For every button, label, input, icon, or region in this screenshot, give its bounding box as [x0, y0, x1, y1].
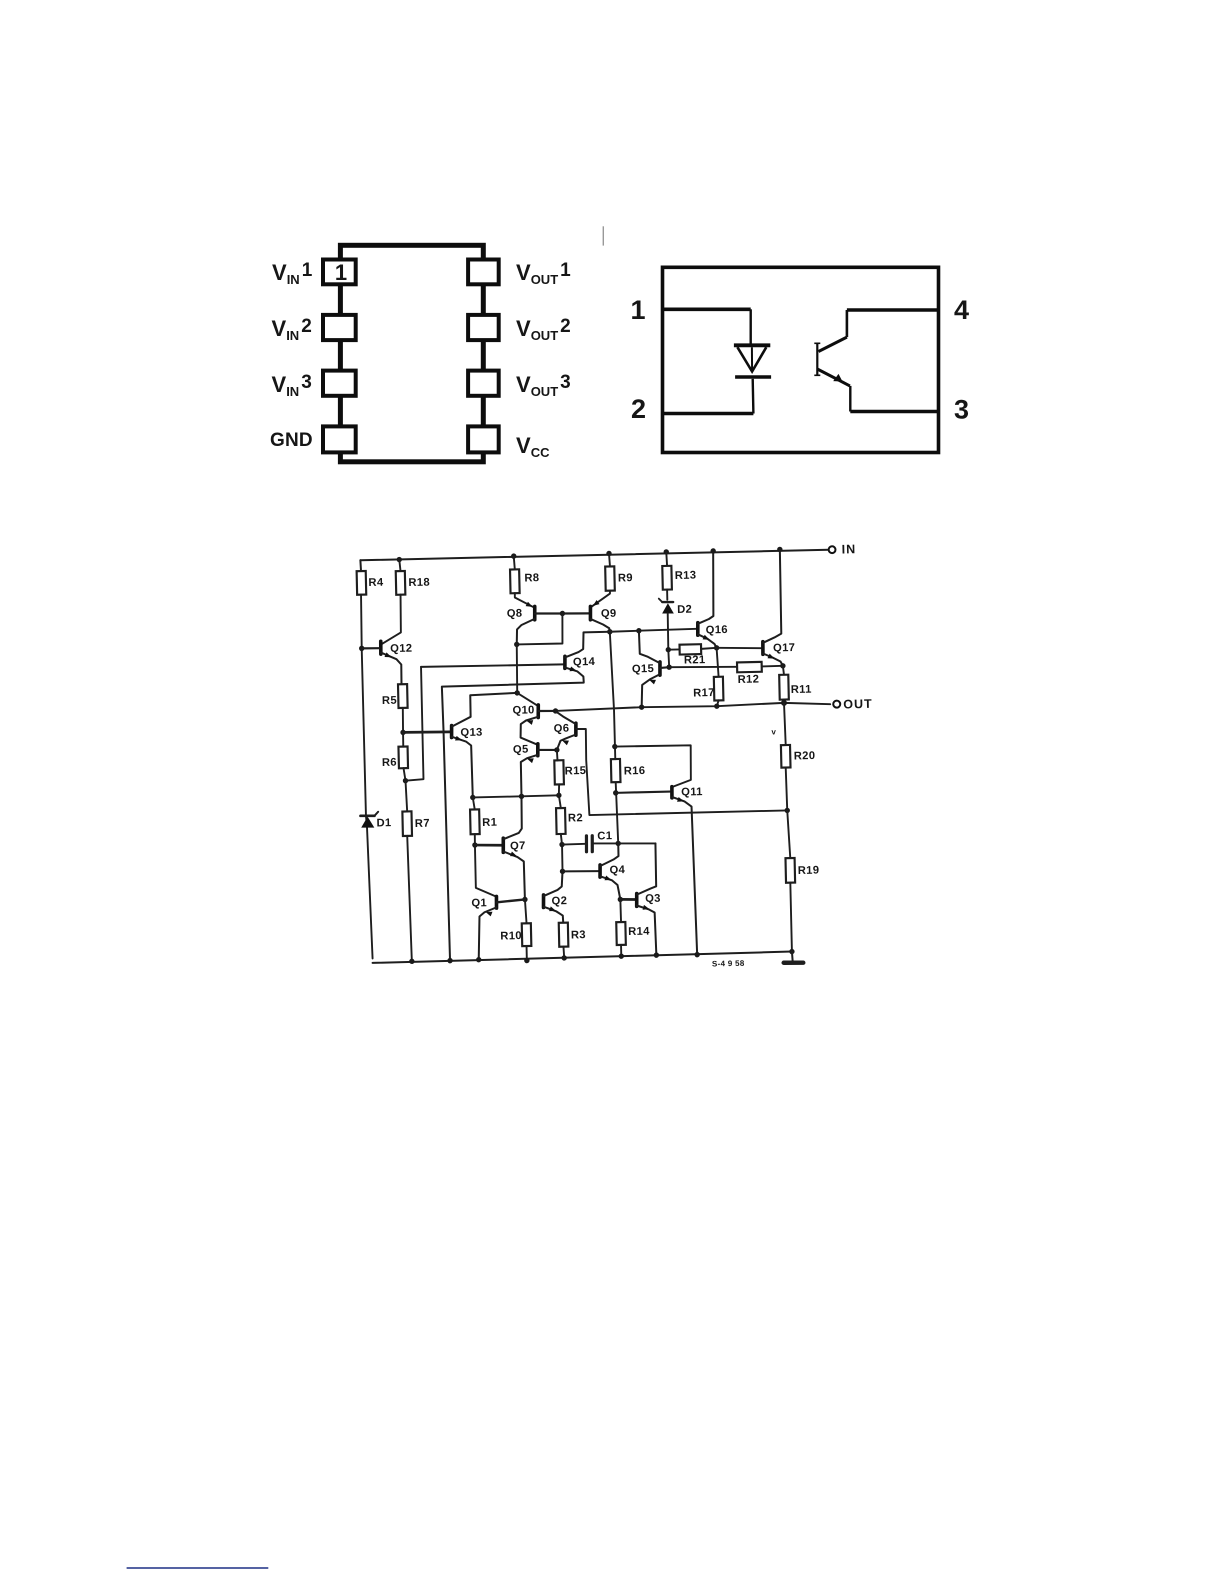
wire R10 bottom	[526, 946, 528, 961]
transistor Q9	[590, 600, 617, 633]
resistor R5	[382, 684, 408, 708]
optocoupler diagram	[630, 267, 969, 452]
junction Q10 base OUT	[553, 708, 559, 714]
resistor R16	[611, 758, 646, 782]
pin 4 GND	[323, 426, 356, 452]
resistor R18	[396, 570, 430, 594]
svg-text:VOUT3: VOUT3	[516, 372, 571, 399]
wire R13 top	[665, 552, 668, 566]
junction Q16 emitter	[714, 645, 720, 651]
svg-text:C1: C1	[597, 830, 612, 842]
wire base to Q9	[562, 613, 590, 614]
wire to R2 bottom	[561, 845, 564, 872]
wire to Q3 collector corner	[618, 843, 655, 845]
wire to R15 top	[556, 750, 559, 761]
resistor R14	[616, 921, 650, 945]
junction D2-R21	[666, 647, 672, 653]
transistor Q8	[507, 601, 564, 645]
capacitor C1	[586, 830, 613, 852]
junction R1-Q7 base	[472, 842, 478, 848]
wire R18 to Q12 collector	[380, 595, 401, 645]
svg-text:R8: R8	[524, 572, 539, 584]
svg-text:VCC: VCC	[516, 433, 550, 460]
wire R3 bottom	[562, 947, 565, 958]
svg-text:Q16: Q16	[706, 624, 728, 636]
wire R4 top	[359, 560, 362, 571]
wire R20 bottom	[786, 767, 788, 810]
svg-text:R13: R13	[675, 570, 697, 582]
svg-text:VIN3: VIN3	[272, 372, 312, 399]
junction R15-R2	[556, 793, 562, 799]
transistor Q2	[543, 871, 568, 923]
svg-text:R16: R16	[624, 765, 646, 777]
wire C1 left	[562, 843, 586, 846]
svg-text:Q10: Q10	[512, 704, 534, 716]
wire Q3 base	[620, 898, 635, 901]
wire R13 to D2	[666, 589, 668, 599]
junction Q15 emitter OUT	[639, 704, 645, 710]
svg-text:Q6: Q6	[554, 723, 570, 735]
pin 5 VCC	[468, 426, 499, 452]
wire R21 right	[701, 648, 716, 649]
svg-text:1: 1	[630, 295, 645, 325]
svg-text:Q2: Q2	[551, 895, 567, 907]
transistor Q15	[631, 630, 670, 707]
wire R10 top	[525, 899, 527, 923]
svg-text:Q5: Q5	[513, 744, 529, 756]
junction rail-Q17	[777, 547, 783, 553]
junction Q11 emitter ground	[694, 952, 700, 958]
wire R8 to Q8	[515, 593, 534, 608]
svg-text:R10: R10	[500, 930, 522, 942]
svg-text:Q14: Q14	[573, 656, 596, 668]
resistor R12	[737, 662, 762, 686]
svg-text:VOUT1: VOUT1	[516, 260, 571, 287]
wire R15 bottom	[558, 784, 561, 795]
svg-text:OUT: OUT	[843, 697, 873, 712]
svg-text:R15: R15	[565, 765, 587, 777]
transistor Q4	[599, 843, 626, 900]
junction R11 OUT	[781, 700, 787, 706]
footnote rule	[127, 1567, 269, 1569]
wire R7 top	[406, 781, 408, 812]
wire R17 bottom	[717, 700, 719, 706]
wire R8 top	[514, 556, 515, 569]
junction Q13 collector node	[514, 690, 520, 696]
wire R16 bottom riser	[616, 782, 619, 843]
junction Q13 emitter R1	[470, 795, 476, 801]
svg-text:Q15: Q15	[632, 663, 654, 675]
svg-text:R5: R5	[382, 695, 397, 707]
wire R1 top	[473, 797, 475, 809]
junction C1-R16 branch	[615, 841, 621, 847]
resistor R20	[781, 744, 816, 767]
wire to Q1 collector	[475, 845, 496, 897]
junction R20-R19 feedback tap	[784, 808, 790, 814]
junction Q4 base node	[560, 869, 566, 875]
junction R16-Q11 base	[613, 790, 619, 796]
pin 8 VOUT1	[468, 260, 499, 285]
wire R9 to Q9	[591, 591, 611, 607]
resistor R9	[605, 566, 633, 591]
transistor Q12	[381, 641, 414, 685]
junction rail-R8	[511, 553, 517, 559]
wire R6 top	[402, 732, 404, 746]
junction Q12 base	[359, 646, 365, 652]
svg-text:4: 4	[954, 295, 969, 325]
wire R19 top	[787, 810, 790, 858]
junction Q15 collector line	[636, 628, 642, 634]
resistor R8	[510, 569, 540, 593]
wire feedback to Q14 base corner	[403, 667, 423, 781]
svg-text:Q17: Q17	[773, 642, 795, 654]
junction Q15 base	[666, 664, 672, 670]
junction R10 ground	[524, 958, 530, 964]
junction rail-Q16	[710, 548, 716, 554]
wire R12 right	[762, 665, 783, 668]
junction Q9 emitter node	[607, 629, 613, 635]
wire Q11 base	[616, 792, 670, 793]
pin 3 lead	[850, 410, 938, 413]
svg-text:D2: D2	[677, 604, 692, 616]
LED (emitter diode)	[734, 309, 771, 413]
wire R21 left	[668, 648, 679, 650]
svg-text:IN: IN	[842, 542, 857, 556]
junction rail-R9	[606, 551, 612, 557]
wire ground rail	[373, 952, 792, 963]
svg-text:1: 1	[335, 260, 347, 285]
svg-text:3: 3	[954, 395, 969, 425]
diode D1 (zener)	[360, 811, 391, 829]
pin 6 VOUT3	[468, 371, 499, 396]
junction R3 ground	[561, 955, 567, 961]
svg-text:Q3: Q3	[645, 893, 661, 905]
svg-text:VIN2: VIN2	[272, 316, 312, 343]
junction Q11 collector wire	[612, 744, 618, 750]
transistor Q17	[761, 549, 796, 666]
wire Q16 base line	[610, 629, 697, 632]
svg-text:Q11: Q11	[681, 786, 703, 798]
svg-text:R7: R7	[415, 818, 430, 830]
resistor R4	[357, 571, 385, 595]
wire R18 top	[399, 560, 400, 572]
svg-text:2: 2	[631, 394, 646, 424]
pin 2 lead	[663, 412, 754, 416]
svg-text:Q8: Q8	[507, 608, 523, 620]
svg-text:Q12: Q12	[390, 643, 412, 655]
svg-text:R11: R11	[791, 684, 812, 696]
resistor R19	[785, 857, 819, 882]
wire D2 anode down	[668, 613, 670, 667]
svg-text:VOUT2: VOUT2	[516, 316, 571, 343]
junction Q3 emitter ground	[654, 952, 660, 958]
wire R11 top	[783, 666, 784, 675]
pin 1 VIN1	[323, 260, 356, 285]
node OUT terminal	[833, 697, 873, 712]
pin 1 lead	[663, 307, 751, 311]
transistor Q3	[635, 843, 662, 955]
svg-text:Q1: Q1	[471, 897, 487, 909]
wire IN rail	[360, 550, 828, 561]
wire R1 bottom	[474, 834, 476, 845]
wire OUT line	[555, 702, 830, 711]
junction Q17 emitter	[780, 663, 786, 669]
junction Q1-Q2 base	[522, 897, 528, 903]
wire left rail lower	[366, 816, 373, 959]
resistor R7	[402, 811, 430, 836]
wire Q12 base	[362, 647, 379, 650]
wire R11 bottom	[783, 699, 785, 702]
pin 4 lead	[847, 308, 939, 311]
svg-text:R17: R17	[693, 687, 715, 699]
wire Q11 collector loop	[615, 745, 692, 788]
junction Q5 base	[554, 747, 560, 753]
junction R6-R7	[403, 778, 409, 784]
svg-text:R9: R9	[618, 572, 633, 584]
wire R19 bottom	[790, 883, 792, 952]
resistor R1	[470, 809, 497, 834]
junction R7-ground rail	[409, 959, 415, 965]
resistor R21	[680, 644, 706, 667]
svg-text:R18: R18	[408, 577, 430, 589]
junction R17 OUT	[714, 703, 720, 709]
pin 7 VOUT2	[468, 315, 499, 340]
svg-text:D1: D1	[376, 817, 391, 829]
junction rail-R18	[397, 557, 403, 563]
wire base loop down	[516, 613, 563, 644]
transistor Q11	[672, 786, 707, 955]
resistor R13	[662, 565, 696, 589]
wire R6 bottom	[404, 768, 406, 781]
wire R7 to ground	[407, 836, 412, 962]
transistor Q7	[502, 796, 527, 900]
wire Q15 base to R12	[669, 666, 737, 669]
wire R2 bottom	[561, 834, 562, 845]
transistor Q16	[696, 551, 728, 649]
svg-text:Q4: Q4	[609, 864, 625, 876]
wire Q4 base	[563, 871, 599, 872]
junction Q1 emitter ground	[476, 957, 482, 963]
junction R14 ground	[619, 953, 625, 959]
wire left rail upper	[361, 595, 366, 816]
pin 3 VIN3	[323, 371, 356, 396]
transistor Q13	[451, 693, 520, 798]
wire R16 top riser	[610, 632, 615, 760]
resistor R2	[556, 808, 583, 834]
junction Q8 emitter	[514, 642, 520, 648]
wire Q17 base	[717, 647, 761, 649]
wire to Q10 collector	[517, 692, 537, 705]
chip body	[340, 245, 483, 461]
wire tail node horizontal	[473, 795, 559, 797]
transistor Q14	[441, 632, 617, 961]
svg-text:R4: R4	[368, 577, 384, 589]
junction Q14 emitter ground	[447, 958, 453, 964]
wire R5 to node	[402, 708, 405, 733]
svg-text:v: v	[771, 727, 776, 736]
wire Q13 base line	[403, 731, 450, 733]
svg-text:R14: R14	[628, 926, 650, 938]
ground	[783, 951, 803, 963]
package outline	[663, 267, 939, 452]
transistor Q6	[553, 711, 576, 750]
node IN terminal	[829, 542, 857, 557]
diode D2 (zener)	[659, 598, 692, 617]
wire R14 top	[619, 899, 622, 922]
junction R5-R6	[400, 730, 406, 736]
resistor R11	[779, 674, 812, 699]
svg-text:R2: R2	[568, 812, 583, 824]
junction tail-Q5 emitter	[519, 794, 525, 800]
svg-text:GND: GND	[270, 430, 313, 451]
svg-text:R3: R3	[571, 929, 586, 941]
junction R2-C1	[559, 842, 565, 848]
resistor R10	[500, 923, 531, 946]
wire R9 top	[608, 553, 611, 566]
resistor R6	[382, 746, 408, 768]
schematic of regulator	[355, 542, 879, 976]
svg-text:R20: R20	[794, 750, 816, 762]
resistor R3	[559, 922, 586, 946]
wire C1 right	[592, 843, 618, 844]
wire Q7 base line	[475, 844, 502, 845]
transistor Q1	[471, 896, 526, 960]
pin 2 VIN2	[323, 315, 356, 340]
svg-text:R12: R12	[738, 674, 760, 686]
svg-text:R1: R1	[482, 817, 497, 829]
junction Q8-Q9 base	[560, 611, 566, 617]
junction ground node	[789, 949, 795, 955]
IC pinout diagram (DIP-8)	[270, 245, 571, 461]
svg-text:R21: R21	[684, 654, 706, 666]
resistor R15	[554, 760, 586, 785]
wire Q6 base feedback	[576, 724, 787, 815]
wire R14 bottom	[620, 945, 622, 956]
svg-text:Q13: Q13	[460, 727, 482, 739]
wire R17 top	[717, 648, 719, 677]
wire Q8 emitter down	[516, 644, 518, 693]
svg-text:Q7: Q7	[510, 840, 526, 852]
wire R20 top	[784, 703, 786, 745]
junction rail-R13	[664, 549, 670, 555]
svg-text:VIN1: VIN1	[272, 260, 313, 287]
svg-text:R6: R6	[382, 757, 397, 769]
wire Q14 base line	[421, 664, 563, 668]
junction Q3 base node	[618, 897, 624, 903]
svg-text:S-4 9 58: S-4 9 58	[712, 959, 745, 969]
transistor Q10	[512, 704, 556, 745]
stray scan tick	[602, 226, 604, 245]
phototransistor	[814, 310, 850, 412]
svg-text:Q9: Q9	[601, 608, 617, 620]
svg-text:R19: R19	[798, 865, 820, 877]
transistor Q5	[513, 743, 558, 796]
wire R2 top	[559, 795, 561, 808]
resistor R17	[693, 677, 724, 701]
